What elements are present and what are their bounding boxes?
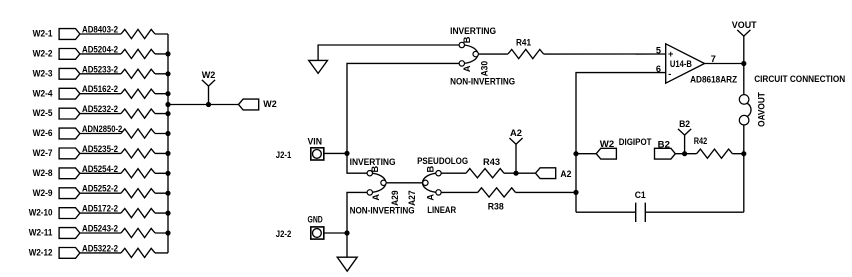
junction bus row 2 [165,51,170,56]
wire row 5 [80,113,168,115]
net flag B2 [684,135,686,154]
junction bus row 11 [165,230,170,235]
junction bus row 9 [165,191,170,196]
svg-text:A2: A2 [510,128,522,138]
tag A2 [536,168,556,179]
wire row 4 [80,93,168,95]
tag B2 [655,148,676,159]
svg-text:R43: R43 [483,157,500,167]
junction feedback R38 [573,190,578,195]
wire row 12 [80,252,168,254]
svg-text:INVERTING: INVERTING [450,26,496,36]
svg-text:5: 5 [656,45,661,55]
svg-text:AD5235-2: AD5235-2 [82,144,118,154]
wire row 9 [80,192,168,194]
resistor AD5322-2 [121,248,155,257]
junction B2 [682,151,687,156]
op-amp U14-B [666,44,705,83]
capacitor C1 [636,203,646,222]
svg-text:AD5232-2: AD5232-2 [82,104,118,114]
tag W2 digipot [596,148,616,159]
wire row 6 [80,133,168,135]
resistor R38 [478,188,516,197]
switch A27 contacts [436,171,441,176]
wire row 8 [80,172,168,174]
wire row 10 [80,212,168,214]
svg-text:A2: A2 [560,169,571,179]
svg-text:VIN: VIN [308,136,323,146]
tag W2-8 [59,168,80,179]
svg-text:W2-11: W2-11 [29,228,53,238]
tag W2-4 [59,88,80,99]
svg-text:B: B [370,166,380,173]
wire VIN to inverting switch [347,153,367,173]
svg-text:R42: R42 [694,136,708,146]
net flag A2 [515,144,517,173]
svg-text:NON-INVERTING: NON-INVERTING [350,206,415,216]
tag W2 output [239,99,259,110]
junction bus row 6 [165,131,170,136]
wire row 11 [80,232,168,234]
wire W2 output [168,104,239,106]
svg-text:ADN2850-2: ADN2850-2 [82,124,122,134]
wire GND to non-inverting switch [347,192,367,233]
svg-text:OAVOUT: OAVOUT [757,92,767,127]
resistor R43 [466,169,504,178]
svg-text:GND: GND [308,215,323,225]
svg-text:B2: B2 [658,139,670,149]
wire VIN [324,152,347,154]
junction VIN [344,151,349,156]
wire row 7 [80,152,168,154]
svg-text:W2: W2 [263,99,276,109]
junction bus row 3 [165,71,170,76]
svg-text:W2-2: W2-2 [33,49,53,59]
ground symbol bottom [337,257,357,271]
svg-text:DIGIPOT: DIGIPOT [619,137,652,147]
junction bus row 8 [165,171,170,176]
resistor AD5235-2 [121,149,155,158]
svg-text:W2-12: W2-12 [29,248,53,258]
wire op-amp output pin 7 [705,63,744,65]
svg-text:J2-2: J2-2 [276,229,292,239]
switch A29 contacts [367,171,372,176]
resistor AD5232-2 [121,109,155,118]
wire B2 tag to junction [675,153,744,155]
junction W2 stub [573,151,578,156]
wire VIN junction up to A30 [347,63,459,153]
svg-text:AD8403-2: AD8403-2 [82,25,118,35]
junction bus row 7 [165,151,170,156]
junction GND [344,230,349,235]
svg-text:AD5172-2: AD5172-2 [82,204,118,214]
junction VOUT [741,61,746,66]
svg-text:AD5162-2: AD5162-2 [82,84,118,94]
resistor AD5172-2 [121,209,155,218]
resistor AD5233-2 [121,69,155,78]
svg-text:R38: R38 [488,201,504,211]
net flag W2 [208,86,210,105]
resistor AD5162-2 [121,89,155,98]
svg-text:W2: W2 [600,139,614,149]
svg-text:PSEUDOLOG: PSEUDOLOG [417,156,468,166]
junction bus row 5 [165,111,170,116]
tag W2-3 [59,68,80,79]
wire A27 B to R43 [441,172,535,174]
svg-text:B2: B2 [679,119,690,129]
wire A27 A to R38 [441,191,576,193]
tag W2-9 [59,188,80,199]
svg-text:W2-8: W2-8 [33,168,53,178]
junction R42 out [741,151,746,156]
svg-text:W2: W2 [202,70,216,80]
wire A29 common to A27 common [386,182,423,184]
wire feedback bottom [576,211,744,213]
svg-text:AD5204-2: AD5204-2 [82,44,118,54]
svg-text:C1: C1 [635,190,646,200]
wire VOUT down [743,36,745,95]
svg-text:W2-9: W2-9 [33,188,53,198]
svg-text:A: A [426,194,436,201]
svg-text:AD5322-2: AD5322-2 [82,243,118,253]
svg-text:B: B [426,166,436,173]
wire below jumper [743,125,745,212]
svg-text:AD8618ARZ: AD8618ARZ [690,74,737,84]
svg-text:W2-1: W2-1 [33,29,53,39]
resistor AD5252-2 [121,189,155,198]
tag W2-5 [59,108,80,119]
svg-text:A29: A29 [390,190,400,206]
svg-text:AD5254-2: AD5254-2 [82,164,118,174]
svg-text:B: B [462,36,472,43]
resistor AD5204-2 [121,49,155,58]
resistor ADN2850-2 [121,129,155,138]
svg-text:A: A [462,65,472,72]
tag W2-7 [59,148,80,159]
wire GND [324,232,347,234]
jumper OAVOUT pins [739,95,749,105]
tag W2-2 [59,49,80,60]
svg-text:VOUT: VOUT [732,20,757,30]
svg-text:AD5233-2: AD5233-2 [82,64,118,74]
svg-text:AD5252-2: AD5252-2 [82,184,118,194]
resistor R42 [697,149,733,158]
resistor AD5243-2 [121,228,155,237]
wire row 3 [80,73,168,75]
svg-text:A27: A27 [407,190,417,206]
svg-text:W2-10: W2-10 [29,208,53,218]
svg-text:A30: A30 [479,61,489,77]
switch A29 wiper arc [370,173,386,192]
svg-text:J2-1: J2-1 [276,150,292,160]
svg-text:NON-INVERTING: NON-INVERTING [450,76,515,86]
svg-text:W2-7: W2-7 [33,148,53,158]
svg-text:W2-4: W2-4 [33,88,54,98]
wire op-amp pin 6 feedback [576,73,666,213]
svg-text:R41: R41 [516,38,531,48]
tag W2-12 [59,248,80,259]
switch A27 wiper arc [423,173,439,192]
resistor R41 [508,49,544,58]
svg-text:CIRCUIT CONNECTION: CIRCUIT CONNECTION [754,74,845,84]
svg-text:INVERTING: INVERTING [350,157,396,167]
tag W2-6 [59,128,80,139]
tag W2-10 [59,208,80,219]
junction bus output tap [165,102,170,107]
jumper OAVOUT shunt arc [747,103,751,117]
svg-text:U14-B: U14-B [670,59,692,69]
wire W2 stub [576,153,596,155]
svg-text:+: + [668,49,673,59]
switch A30 contacts [459,42,464,47]
switch A30 wiper arc [462,45,478,63]
svg-text:W2-5: W2-5 [33,108,53,118]
svg-text:A: A [371,194,381,201]
svg-text:7: 7 [711,54,716,64]
resistor AD8403-2 [121,29,155,38]
svg-text:W2-6: W2-6 [33,128,53,138]
junction bus row 10 [165,211,170,216]
svg-text:AD5243-2: AD5243-2 [82,224,118,234]
svg-text:-: - [668,69,671,79]
wire A30 common to R41 [478,53,665,55]
tag W2-11 [59,228,80,239]
junction bus row 4 [165,91,170,96]
tag W2-1 [59,29,80,40]
junction A2 [513,171,518,176]
resistor AD5254-2 [121,169,155,178]
svg-text:LINEAR: LINEAR [427,205,456,215]
junction W2 flag [206,102,211,107]
wire row 2 [80,53,168,55]
ground symbol top [318,45,459,60]
svg-text:W2-3: W2-3 [33,68,53,78]
wire GND to ground [346,233,348,257]
wire row 1 [80,33,168,35]
bus wire vertical [167,34,169,253]
